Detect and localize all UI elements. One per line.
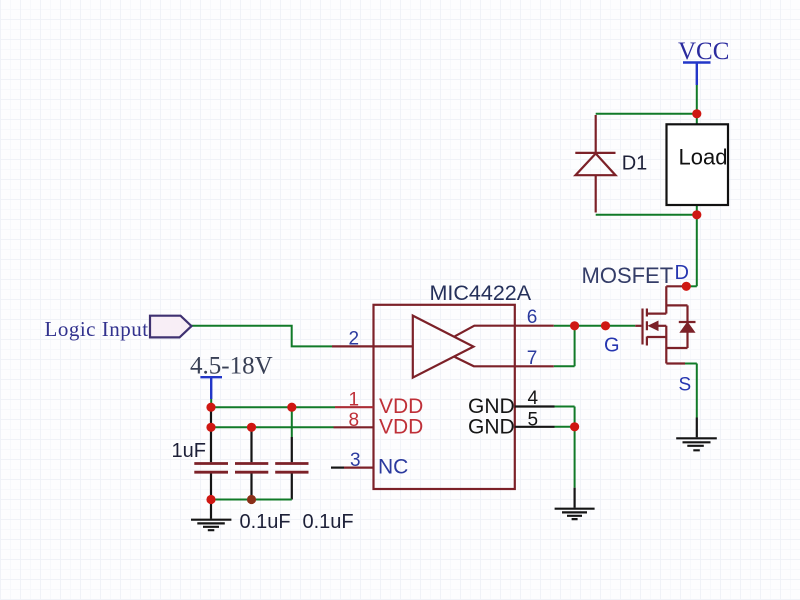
svg-text:1: 1 bbox=[349, 389, 360, 410]
svg-text:8: 8 bbox=[349, 410, 360, 431]
svg-text:D1: D1 bbox=[622, 153, 648, 175]
svg-text:NC: NC bbox=[378, 456, 408, 479]
svg-text:Load: Load bbox=[679, 145, 728, 170]
svg-text:1uF: 1uF bbox=[172, 440, 206, 462]
svg-text:MIC4422A: MIC4422A bbox=[430, 281, 532, 305]
svg-text:5: 5 bbox=[528, 410, 539, 431]
svg-text:VDD: VDD bbox=[379, 415, 423, 438]
svg-text:2: 2 bbox=[349, 329, 360, 350]
svg-text:4.5-18V: 4.5-18V bbox=[190, 353, 273, 380]
svg-text:4: 4 bbox=[528, 388, 539, 409]
svg-text:6: 6 bbox=[527, 307, 538, 328]
svg-text:GND: GND bbox=[468, 415, 515, 438]
svg-text:7: 7 bbox=[527, 348, 538, 369]
svg-text:Logic Input: Logic Input bbox=[45, 317, 149, 341]
svg-text:0.1uF: 0.1uF bbox=[303, 511, 354, 533]
svg-text:S: S bbox=[679, 375, 692, 396]
svg-text:VCC: VCC bbox=[678, 38, 729, 65]
svg-text:D: D bbox=[675, 262, 689, 284]
svg-text:3: 3 bbox=[350, 450, 361, 471]
svg-text:0.1uF: 0.1uF bbox=[240, 511, 291, 533]
svg-text:MOSFET: MOSFET bbox=[582, 263, 674, 288]
svg-text:G: G bbox=[604, 335, 620, 357]
